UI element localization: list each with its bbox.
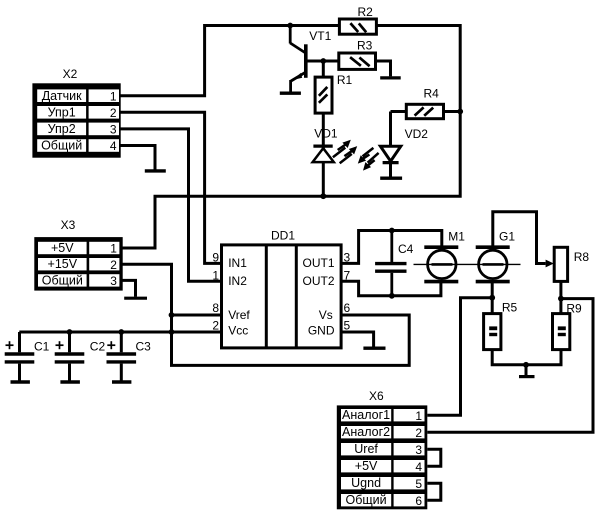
svg-text:Упр1: Упр1 bbox=[48, 105, 76, 119]
ground symbol at X3 pin3 bbox=[124, 297, 147, 300]
motor M1 bbox=[424, 229, 465, 281]
capacitor C4 bbox=[375, 231, 414, 296]
svg-text:Vcc: Vcc bbox=[228, 323, 248, 337]
wire: to X6 pin1 (Аналог1) bbox=[427, 298, 492, 416]
wire: VT1 base to R3/R1 bbox=[306, 60, 339, 63]
wire: X6 pin3-pin4 link (Uref to +5V) bbox=[427, 449, 441, 466]
svg-text:Ugnd: Ugnd bbox=[351, 476, 381, 490]
connector X3 bbox=[34, 218, 122, 290]
svg-text:X2: X2 bbox=[63, 67, 78, 81]
ground symbol at VT1 emitter bbox=[280, 91, 301, 94]
op-amp IC DD1 bbox=[222, 229, 342, 348]
connector X2 bbox=[32, 67, 120, 158]
shaft coupling line M1-G1 bbox=[414, 263, 521, 265]
svg-text:Общий: Общий bbox=[42, 273, 83, 287]
wire: VD2 top to R4 to right rail bbox=[391, 110, 461, 113]
wire: DD1 pin5 GND to ground bbox=[341, 332, 374, 347]
svg-text:VD2: VD2 bbox=[405, 127, 429, 141]
svg-text:6: 6 bbox=[344, 301, 351, 315]
svg-text:DD1: DD1 bbox=[271, 229, 295, 243]
svg-text:R9: R9 bbox=[566, 302, 582, 316]
svg-text:8: 8 bbox=[212, 301, 219, 315]
svg-text:Vref: Vref bbox=[228, 308, 250, 322]
wire: DD1 pin7 OUT2 to C4 and M1 bottom bbox=[341, 281, 441, 296]
svg-text:M1: M1 bbox=[448, 229, 465, 243]
svg-text:C2: C2 bbox=[90, 340, 106, 354]
pin number 2 (DD1 Vcc) bbox=[212, 319, 219, 333]
wire: X6 pin5-pin6 link (Ugnd to Общий) bbox=[427, 483, 441, 500]
light arrow into VD2 (1) bbox=[358, 148, 374, 164]
node: C4 top junction bbox=[389, 228, 395, 234]
wire: X2 pin4 (Общий) to ground bbox=[120, 146, 155, 170]
light arrow from VD1 (1) bbox=[333, 140, 351, 158]
wire: X2 pin2 (Упр1) to DD1 pin9 IN1 bbox=[120, 112, 222, 263]
svg-text:Uref: Uref bbox=[354, 442, 378, 456]
svg-text:C1: C1 bbox=[34, 340, 50, 354]
svg-text:IN2: IN2 bbox=[228, 274, 247, 288]
node: G1/R5/Аналог1 junction bbox=[489, 295, 495, 301]
svg-text:C3: C3 bbox=[136, 340, 152, 354]
ground symbol at DD1 GND bbox=[363, 347, 385, 350]
wire: X2 pin3 (Упр2) to DD1 pin1 IN2 bbox=[120, 129, 222, 281]
svg-text:GND: GND bbox=[308, 323, 335, 337]
node: VD1 on bottom rail bbox=[320, 193, 326, 199]
svg-text:R3: R3 bbox=[357, 38, 373, 52]
node: collector junction on top rail bbox=[287, 23, 293, 29]
wire: VD2 vertical branch bbox=[389, 112, 392, 177]
wire: R5/R9 bottom rail bbox=[492, 350, 561, 365]
svg-text:1: 1 bbox=[110, 242, 117, 256]
ground symbol below VD2 bbox=[380, 176, 402, 179]
node: ground tap on R5/R9 rail bbox=[523, 362, 529, 368]
wire: G1 top to R8 wiper bbox=[493, 212, 546, 264]
svg-text:2: 2 bbox=[212, 319, 219, 333]
svg-text:R4: R4 bbox=[424, 87, 440, 101]
wire: G1 bottom to R5 top bbox=[491, 282, 494, 315]
resistor R8 (potentiometer) bbox=[554, 247, 589, 281]
svg-text:VT1: VT1 bbox=[309, 29, 331, 43]
svg-text:R8: R8 bbox=[574, 250, 590, 264]
resistor R1 bbox=[315, 73, 352, 113]
svg-text:Общий: Общий bbox=[41, 139, 82, 153]
svg-text:OUT1: OUT1 bbox=[302, 256, 334, 270]
svg-text:OUT2: OUT2 bbox=[302, 274, 334, 288]
svg-text:+5V: +5V bbox=[51, 241, 74, 255]
svg-text:+5V: +5V bbox=[355, 459, 378, 473]
svg-text:6: 6 bbox=[415, 494, 422, 508]
node: R4 on right rail bbox=[457, 109, 463, 115]
svg-text:2: 2 bbox=[110, 258, 117, 272]
pin number 5 (DD1 GND) bbox=[344, 319, 351, 333]
wire: X3 pin3 (Общий) to ground bbox=[122, 280, 135, 296]
capacitor C3 bbox=[107, 332, 152, 382]
pin number 8 (DD1 Vref) bbox=[212, 301, 219, 315]
svg-text:IN1: IN1 bbox=[228, 256, 247, 270]
svg-text:4: 4 bbox=[110, 139, 117, 153]
node: R8/R9/Аналог2 junction bbox=[558, 296, 564, 302]
ground symbol at R3 bbox=[380, 76, 401, 79]
svg-text:1: 1 bbox=[110, 89, 117, 103]
svg-text:4: 4 bbox=[415, 460, 422, 474]
svg-text:5: 5 bbox=[415, 477, 422, 491]
svg-text:Аналог2: Аналог2 bbox=[342, 425, 390, 439]
node: base / R1 / R3 junction bbox=[320, 58, 326, 64]
svg-text:2: 2 bbox=[415, 426, 422, 440]
svg-text:R5: R5 bbox=[502, 301, 518, 315]
node: Vref tap on +15V line bbox=[169, 312, 175, 318]
svg-text:Общий: Общий bbox=[346, 493, 387, 507]
resistor R9 bbox=[553, 302, 583, 350]
svg-text:3: 3 bbox=[110, 274, 117, 288]
wire: X2 pin1 (Датчик) up to +5V top rail, right vertical, bottom rail, down to X3 pin1 (+5V) bbox=[120, 26, 460, 249]
svg-text:1: 1 bbox=[212, 269, 219, 283]
resistor R3 bbox=[339, 38, 376, 69]
pin number 9 (DD1 IN1) bbox=[212, 251, 219, 265]
wire: R8 bottom to R9 top bbox=[559, 281, 562, 314]
capacitor C1 bbox=[5, 332, 50, 382]
ground symbol below R5/R9 rail bbox=[519, 365, 535, 377]
svg-text:Датчик: Датчик bbox=[42, 89, 82, 103]
light arrow from VD1 (2) bbox=[340, 146, 358, 163]
svg-text:1: 1 bbox=[415, 409, 422, 423]
pin number 3 (DD1 OUT1) bbox=[344, 251, 351, 265]
svg-text:VD1: VD1 bbox=[314, 126, 338, 140]
transistor VT1 bbox=[290, 26, 331, 93]
wire: R3 to ground bbox=[376, 61, 391, 76]
node: C3 on capacitor rail bbox=[118, 329, 124, 335]
svg-text:3: 3 bbox=[415, 443, 422, 457]
svg-text:Упр2: Упр2 bbox=[48, 122, 76, 136]
pin number 6 (DD1 Vs) bbox=[344, 301, 351, 315]
light arrow into VD2 (2) bbox=[363, 153, 379, 171]
node: Vcc tap on +15V line bbox=[169, 329, 175, 335]
svg-text:2: 2 bbox=[110, 106, 117, 120]
svg-text:3: 3 bbox=[110, 123, 117, 137]
photodiode VD2 bbox=[380, 127, 428, 162]
resistor R2 bbox=[339, 5, 376, 34]
ground symbol at X2 pin4 bbox=[145, 169, 166, 172]
LED VD1 bbox=[313, 126, 338, 162]
wire: DD1 pin3 OUT1 to C4 and M1 top bbox=[341, 231, 442, 264]
svg-text:X6: X6 bbox=[369, 389, 384, 403]
pin number 1 (DD1 IN2) bbox=[212, 269, 219, 283]
wire: R1 / VD1 branch to bottom rail bbox=[322, 61, 325, 196]
svg-text:Аналог1: Аналог1 bbox=[342, 408, 390, 422]
connector X6 bbox=[337, 389, 428, 509]
wire: to X6 pin2 (Аналог2) bbox=[427, 299, 593, 433]
capacitor C2 bbox=[55, 332, 106, 382]
wire: capacitor rail to DD1 pin2 Vcc bbox=[19, 331, 221, 334]
svg-text:+15V: +15V bbox=[48, 257, 78, 271]
svg-text:G1: G1 bbox=[499, 229, 515, 243]
pin number 7 (DD1 OUT2) bbox=[344, 269, 351, 283]
generator G1 bbox=[476, 229, 516, 281]
node: C4 bottom junction bbox=[389, 293, 395, 299]
svg-text:9: 9 bbox=[212, 251, 219, 265]
resistor R4 bbox=[406, 87, 443, 119]
svg-text:C4: C4 bbox=[398, 242, 414, 256]
svg-text:Vs: Vs bbox=[319, 308, 333, 322]
node: C2 on capacitor rail bbox=[67, 329, 73, 335]
svg-text:R1: R1 bbox=[337, 73, 353, 87]
wire: X3 pin2 (+15V) down to link rail and up to DD1 pin6 Vs bbox=[122, 264, 409, 365]
svg-text:R2: R2 bbox=[358, 5, 374, 19]
svg-text:X3: X3 bbox=[61, 218, 76, 232]
resistor R5 bbox=[484, 301, 518, 350]
wire: DD1 pin8 Vref bbox=[172, 314, 222, 317]
wiper arrow into R8 bbox=[546, 260, 554, 268]
